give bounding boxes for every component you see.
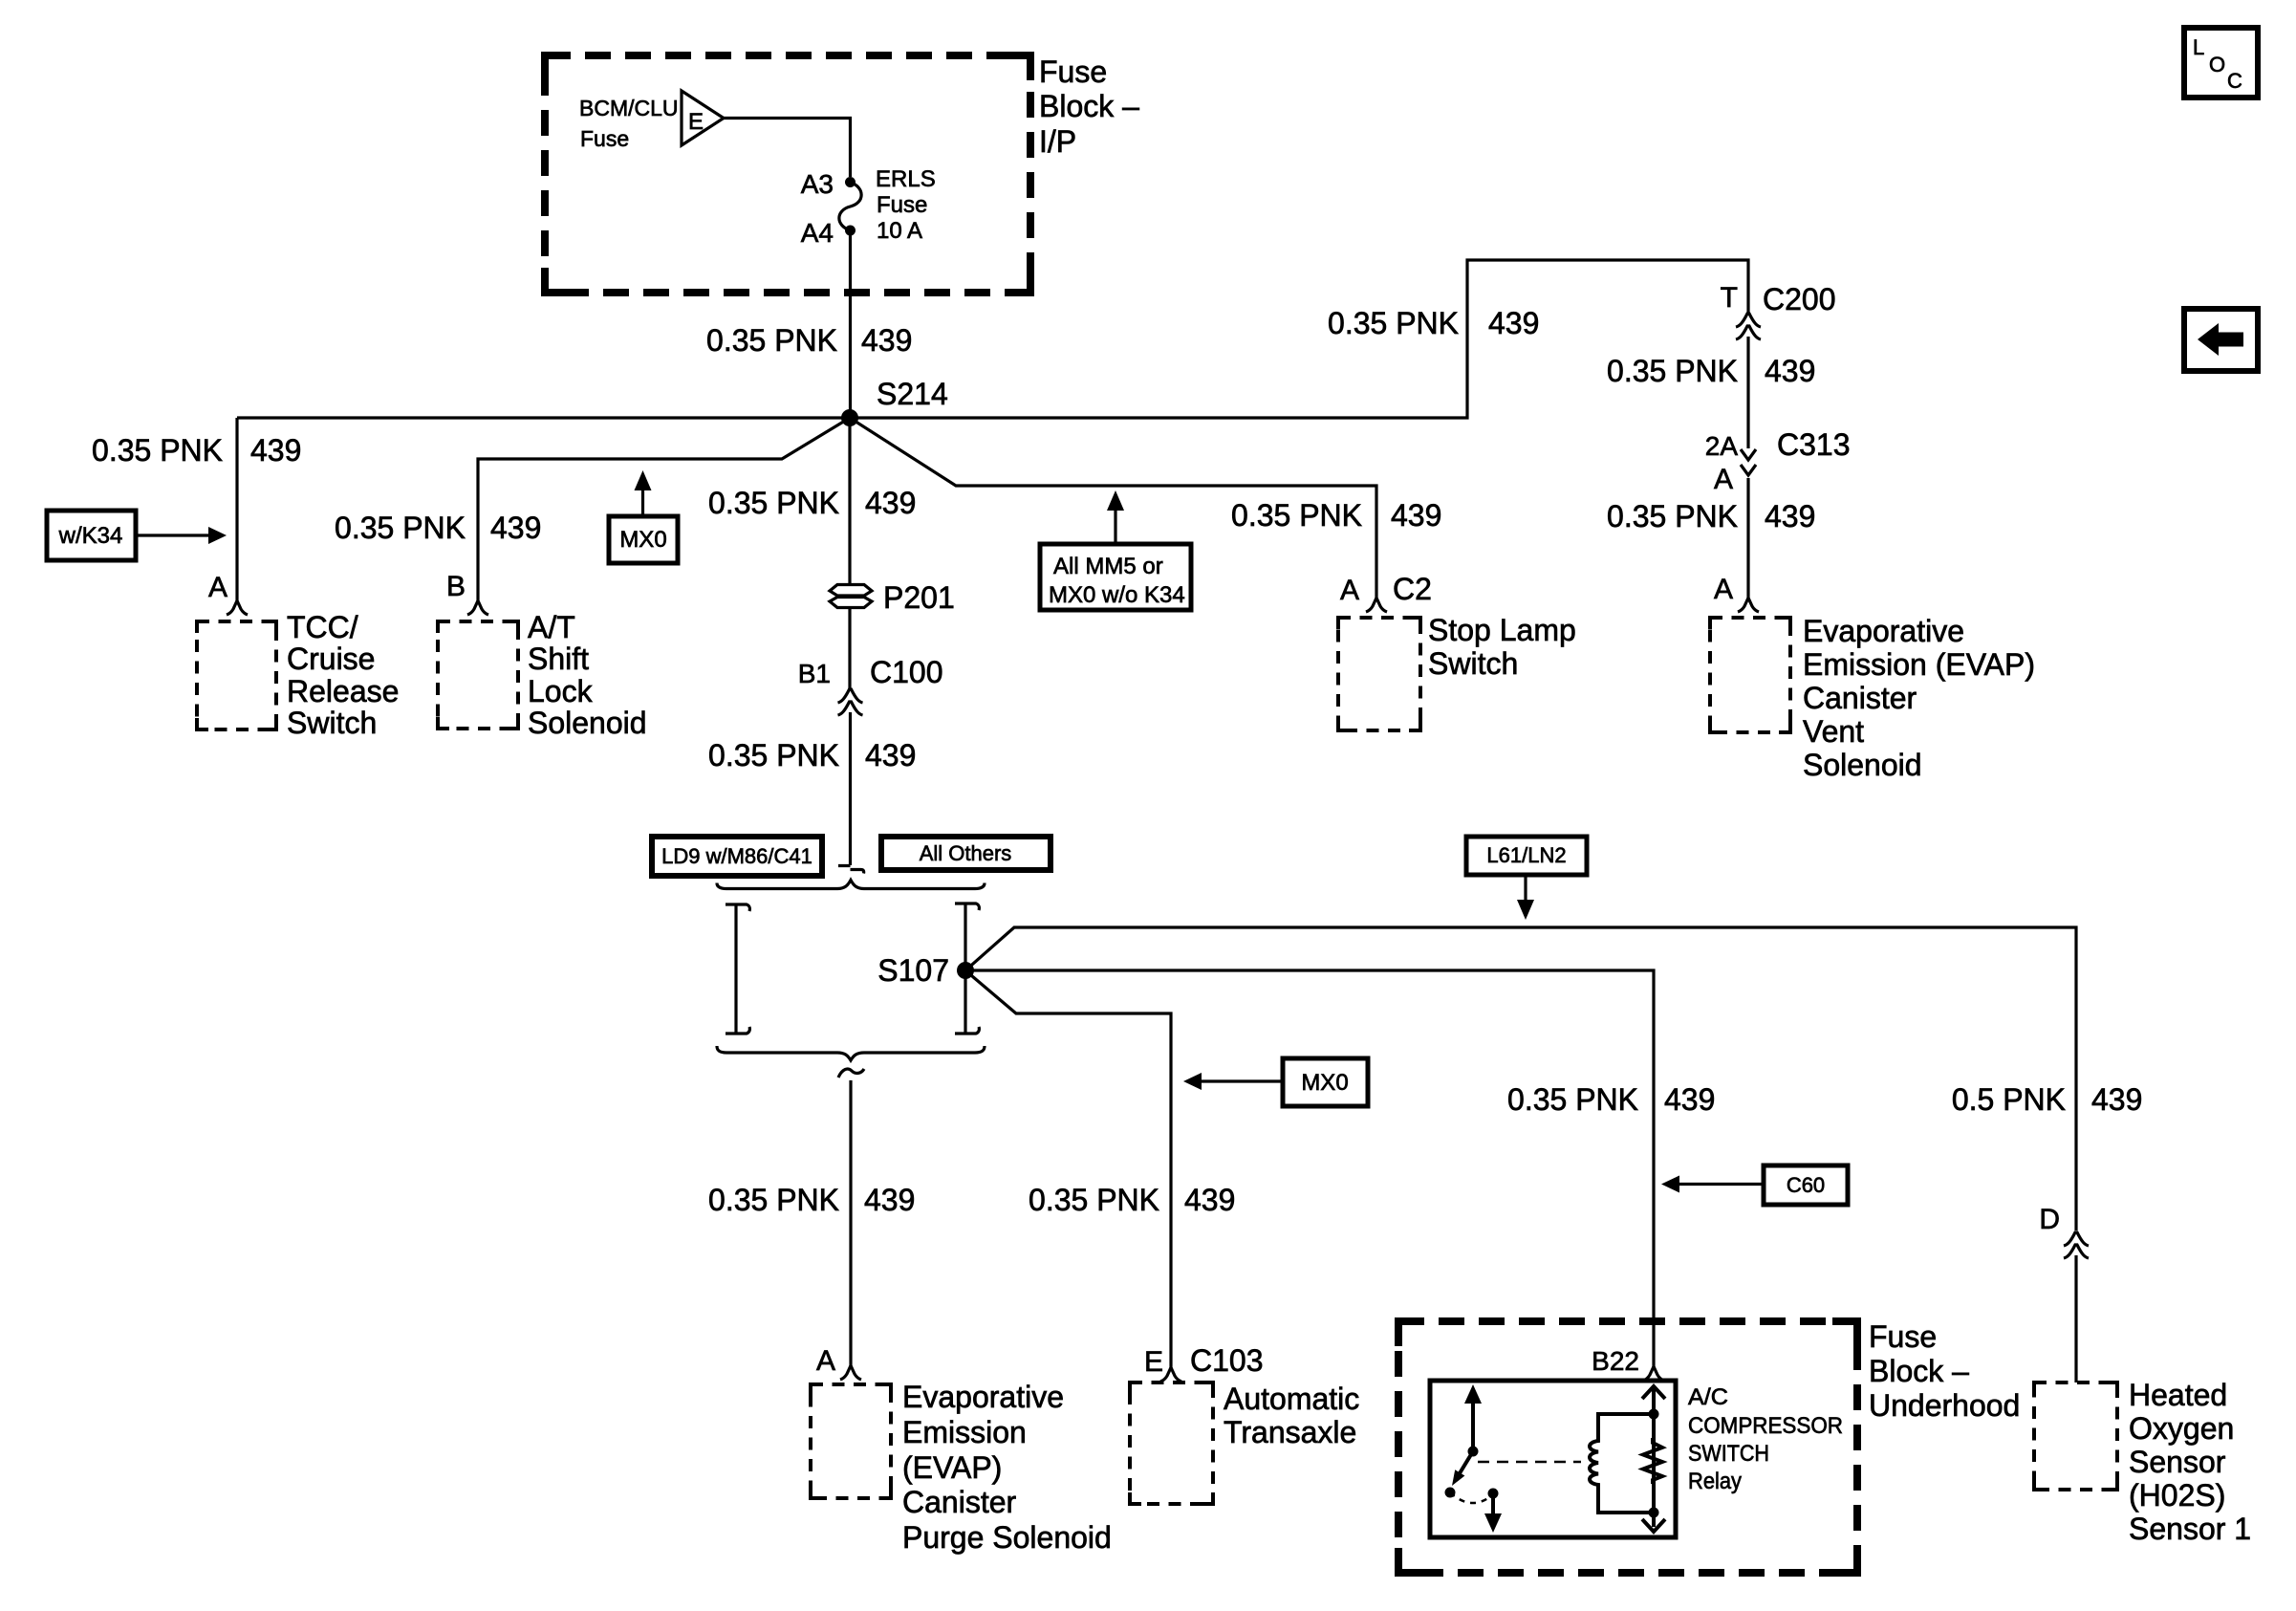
svg-text:0.35 PNK: 0.35 PNK: [1231, 498, 1362, 533]
wire label 0.5 PNK 439 HO2S: [1952, 1082, 2143, 1117]
wire triangle to fuse: [724, 119, 851, 178]
relay output pin arrow down: [1491, 1493, 1495, 1516]
svg-text:439: 439: [864, 1183, 915, 1217]
wire label 0.35 PNK 439 B22: [1507, 1082, 1715, 1117]
svg-text:A: A: [816, 1345, 835, 1377]
wire C100 down to break: [849, 712, 852, 865]
label Fuse Block - I/P: [1039, 54, 1139, 159]
svg-text:Underhood: Underhood: [1869, 1388, 2020, 1423]
svg-text:I/P: I/P: [1039, 124, 1076, 159]
relay resistor: [1643, 1438, 1662, 1484]
wire break squiggle top: [838, 866, 864, 874]
relay switch contact node left: [1445, 1488, 1456, 1498]
arrow C60 left to wire: [1679, 1183, 1764, 1186]
wire S107 top branch to HO2S: [965, 927, 2076, 1230]
svg-text:L61/LN2: L61/LN2: [1486, 843, 1566, 867]
svg-text:Relay: Relay: [1688, 1469, 1742, 1494]
svg-text:Solenoid: Solenoid: [1803, 748, 1922, 782]
svg-text:P201: P201: [883, 580, 955, 615]
wire P201 to C100: [848, 607, 851, 688]
arrow MX0 up to wire: [641, 490, 644, 516]
svg-text:0.35 PNK: 0.35 PNK: [708, 486, 839, 520]
svg-text:C60: C60: [1787, 1173, 1825, 1197]
svg-text:439: 439: [1765, 499, 1815, 533]
connector C313 male-female symbol: [1741, 449, 1756, 475]
relay coil: [1590, 1414, 1653, 1513]
connector D double chevron: [2064, 1232, 2089, 1258]
svg-text:Evaporative: Evaporative: [1803, 614, 1964, 648]
svg-text:MX0: MX0: [1301, 1070, 1348, 1096]
bottom brace: [717, 1046, 985, 1060]
svg-text:A: A: [208, 572, 227, 603]
wire label 0.35 PNK 439 right: [1328, 306, 1539, 340]
svg-text:C100: C100: [870, 655, 943, 689]
svg-text:B22: B22: [1592, 1346, 1639, 1376]
relay coil top node: [1649, 1409, 1659, 1420]
connector chevron stop lamp A: [1366, 599, 1387, 612]
wire S214 diagonal to stop lamp branch: [850, 418, 1376, 599]
stop lamp switch box: [1338, 618, 1420, 730]
option box MX0 first: [609, 516, 678, 563]
svg-text:S107: S107: [877, 953, 949, 988]
wire label 0.35 PNK 439 transaxle: [1029, 1183, 1235, 1217]
svg-text:A: A: [1714, 574, 1733, 605]
svg-text:A: A: [1340, 575, 1359, 606]
svg-text:0.5 PNK: 0.5 PNK: [1952, 1082, 2066, 1117]
option box C60: [1764, 1165, 1848, 1205]
svg-text:LD9 w/M86/C41: LD9 w/M86/C41: [661, 844, 812, 868]
connector chevron B: [467, 602, 488, 615]
svg-text:D: D: [2039, 1204, 2060, 1235]
svg-text:O: O: [2209, 53, 2225, 76]
relay bottom pin arrow down: [1642, 1519, 1665, 1532]
svg-text:0.35 PNK: 0.35 PNK: [708, 1183, 839, 1217]
wire label 0.35 PNK 439 top: [706, 323, 912, 358]
wire label 0.35 PNK 439 vent: [1607, 499, 1815, 533]
left splice bracket: [726, 904, 749, 1034]
svg-text:COMPRESSOR: COMPRESSOR: [1688, 1413, 1843, 1439]
option box LD9 w/M86/C41: [652, 837, 822, 876]
svg-text:0.35 PNK: 0.35 PNK: [1328, 306, 1459, 340]
svg-text:Release: Release: [287, 674, 399, 708]
svg-text:Transaxle: Transaxle: [1224, 1415, 1356, 1449]
svg-text:Canister: Canister: [902, 1485, 1017, 1519]
svg-text:L: L: [2193, 35, 2204, 59]
svg-text:0.35 PNK: 0.35 PNK: [335, 511, 466, 545]
svg-text:Fuse: Fuse: [1869, 1319, 1937, 1354]
wire label 0.35 PNK 439 A branch: [92, 433, 301, 468]
wire fuse to S214: [849, 230, 852, 418]
connector chevron EVAP vent: [1738, 599, 1759, 612]
wire label 0.35 PNK 439 center: [708, 486, 916, 520]
BCM/CLU fuse label: [579, 96, 679, 151]
wire label 0.35 PNK 439 stop lamp: [1231, 498, 1441, 533]
svg-text:B1: B1: [798, 659, 831, 688]
arrow MM5 box up to wire: [1114, 511, 1116, 544]
svg-text:2A: 2A: [1705, 431, 1739, 461]
svg-text:439: 439: [490, 511, 541, 545]
svg-text:Switch: Switch: [1428, 646, 1518, 681]
fuse ERLS 10A element: [839, 183, 861, 231]
svg-text:Shift: Shift: [528, 642, 589, 676]
connector chevron B22: [1643, 1368, 1664, 1381]
svg-text:Sensor: Sensor: [2129, 1445, 2226, 1479]
svg-text:0.35 PNK: 0.35 PNK: [1029, 1183, 1159, 1217]
svg-text:(H02S): (H02S): [2129, 1478, 2225, 1513]
fuse block I/P dashed box: [545, 55, 1030, 293]
automatic transaxle box: [1130, 1382, 1213, 1504]
fuse block underhood dashed box: [1398, 1321, 1857, 1573]
page nav left arrow box: [2184, 309, 2258, 371]
svg-text:0.35 PNK: 0.35 PNK: [92, 433, 223, 468]
svg-text:Solenoid: Solenoid: [528, 706, 647, 740]
svg-text:C2: C2: [1393, 572, 1432, 606]
svg-text:Emission (EVAP): Emission (EVAP): [1803, 647, 2035, 682]
svg-text:439: 439: [1664, 1082, 1715, 1117]
svg-text:ERLS: ERLS: [876, 166, 936, 192]
relay switch pivot node: [1468, 1447, 1479, 1457]
svg-text:Cruise: Cruise: [287, 642, 375, 676]
relay coil bottom node: [1649, 1508, 1659, 1518]
option box L61/LN2: [1466, 837, 1587, 875]
svg-text:Switch: Switch: [287, 706, 377, 740]
fuse feed triangle E: [682, 91, 724, 145]
svg-text:T: T: [1721, 282, 1738, 314]
option box All MM5 or MX0 w/o K34: [1040, 544, 1191, 610]
relay switch arm: [1460, 1451, 1473, 1473]
option box All Others: [881, 837, 1051, 870]
wire S107 middle branch to B22: [965, 970, 1654, 1367]
svg-text:Canister: Canister: [1803, 681, 1917, 715]
svg-text:0.35 PNK: 0.35 PNK: [1607, 499, 1738, 533]
splice S107: [957, 962, 974, 979]
svg-text:Block –: Block –: [1039, 89, 1139, 123]
heated oxygen sensor box: [2034, 1382, 2117, 1490]
svg-text:B: B: [446, 571, 466, 602]
relay switch dashed throw arc: [1450, 1492, 1493, 1503]
svg-text:A3: A3: [801, 169, 834, 199]
svg-text:A: A: [1714, 464, 1733, 495]
svg-text:439: 439: [865, 486, 916, 520]
svg-text:0.35 PNK: 0.35 PNK: [706, 323, 837, 358]
wire label 0.35 PNK 439 B branch: [335, 511, 541, 545]
wire label 0.35 PNK 439 C200-C313: [1607, 354, 1815, 388]
node A4: [845, 226, 856, 236]
wire C313 to EVAP vent: [1746, 478, 1749, 599]
svg-text:S214: S214: [877, 377, 948, 411]
svg-text:Stop Lamp: Stop Lamp: [1428, 613, 1576, 647]
arrow MX0 left to wire: [1202, 1079, 1283, 1082]
svg-text:10 A: 10 A: [877, 218, 922, 244]
svg-text:Purge Solenoid: Purge Solenoid: [902, 1520, 1112, 1555]
svg-text:439: 439: [1488, 306, 1539, 340]
wire brace to EVAP purge: [849, 1080, 852, 1366]
svg-text:Sensor 1: Sensor 1: [2129, 1512, 2251, 1546]
svg-text:439: 439: [865, 738, 916, 773]
svg-text:C: C: [2227, 69, 2242, 93]
connector chevron C103: [1160, 1369, 1181, 1382]
relay B22 pin arrow: [1652, 1385, 1656, 1527]
wire S214 diagonal to B branch: [478, 418, 850, 601]
connector chevron TCC A: [227, 602, 248, 615]
svg-text:Oxygen: Oxygen: [2129, 1411, 2234, 1446]
wire C200 to C313: [1746, 337, 1749, 448]
svg-text:Lock: Lock: [528, 674, 594, 708]
svg-text:A/T: A/T: [528, 610, 575, 644]
svg-text:0.35 PNK: 0.35 PNK: [1607, 354, 1738, 388]
option box MX0 second: [1283, 1058, 1368, 1106]
label Fuse Block - Underhood: [1869, 1319, 2020, 1423]
svg-text:439: 439: [250, 433, 301, 468]
svg-text:Heated: Heated: [2129, 1378, 2227, 1412]
A/T shift lock solenoid box: [438, 621, 518, 729]
splice S214: [841, 409, 858, 426]
EVAP canister vent solenoid box: [1710, 618, 1790, 732]
svg-text:SWITCH: SWITCH: [1688, 1441, 1769, 1467]
svg-text:0.35 PNK: 0.35 PNK: [1507, 1082, 1638, 1117]
svg-text:C313: C313: [1777, 427, 1851, 462]
A/C compressor switch relay box: [1430, 1381, 1676, 1537]
svg-text:All MM5 or: All MM5 or: [1053, 554, 1163, 579]
svg-text:A/C: A/C: [1688, 1384, 1728, 1410]
svg-text:Fuse: Fuse: [1039, 54, 1107, 89]
wire label 0.35 PNK 439 purge: [708, 1183, 915, 1217]
svg-text:439: 439: [2091, 1082, 2142, 1117]
svg-text:439: 439: [1184, 1183, 1235, 1217]
svg-text:MX0 w/o K34: MX0 w/o K34: [1049, 582, 1185, 608]
svg-text:A4: A4: [801, 218, 834, 248]
svg-text:TCC/: TCC/: [287, 610, 358, 644]
connector chevron EVAP purge: [840, 1367, 861, 1380]
svg-text:439: 439: [1391, 498, 1441, 533]
svg-text:All Others: All Others: [920, 841, 1012, 865]
arrow L61/LN2 down to wire: [1524, 875, 1527, 900]
page locator LOC box: [2184, 28, 2258, 98]
wire label 0.35 PNK 439 lower center: [708, 738, 916, 773]
connector C100 double chevron: [838, 689, 863, 715]
right splice bracket: [955, 903, 979, 1034]
arrow w/K34 to wire: [136, 533, 210, 536]
EVAP canister purge solenoid box: [811, 1384, 891, 1498]
svg-text:439: 439: [1765, 354, 1815, 388]
wire S107 bottom branch to C103: [965, 970, 1171, 1368]
svg-text:C103: C103: [1190, 1343, 1264, 1378]
node A3: [845, 177, 856, 187]
svg-text:Block –: Block –: [1869, 1354, 1969, 1388]
relay actuation dashed link: [1478, 1461, 1581, 1464]
svg-text:(EVAP): (EVAP): [902, 1450, 1002, 1485]
grommet P201: [830, 580, 955, 615]
svg-text:Vent: Vent: [1803, 714, 1864, 749]
svg-text:w/K34: w/K34: [58, 523, 123, 549]
relay switch contact node right: [1488, 1489, 1499, 1499]
svg-text:439: 439: [861, 323, 912, 358]
svg-text:E: E: [688, 109, 704, 135]
wire S214 left horizontal: [237, 416, 850, 419]
connector C200 double chevron: [1736, 314, 1761, 339]
wire A branch vertical: [235, 418, 238, 601]
top brace: [717, 881, 985, 889]
wire break squiggle bottom: [838, 1069, 864, 1078]
relay switch common pin arrow: [1471, 1402, 1475, 1451]
svg-text:Automatic: Automatic: [1224, 1382, 1359, 1416]
svg-text:E: E: [1144, 1346, 1163, 1378]
TCC/Cruise Release Switch box: [197, 621, 276, 729]
wire D to HO2S box: [2074, 1255, 2077, 1382]
svg-text:Emission: Emission: [902, 1415, 1027, 1449]
svg-text:Evaporative: Evaporative: [902, 1380, 1064, 1414]
wire S214 down to P201: [848, 418, 851, 584]
svg-text:Fuse: Fuse: [877, 192, 927, 218]
wire S214 right then up to C200: [850, 260, 1748, 418]
option box w/K34: [47, 511, 136, 560]
svg-text:Fuse: Fuse: [580, 126, 629, 151]
svg-text:0.35 PNK: 0.35 PNK: [708, 738, 839, 773]
svg-text:C200: C200: [1763, 282, 1836, 316]
svg-text:BCM/CLU: BCM/CLU: [579, 96, 679, 120]
svg-text:MX0: MX0: [619, 527, 666, 553]
